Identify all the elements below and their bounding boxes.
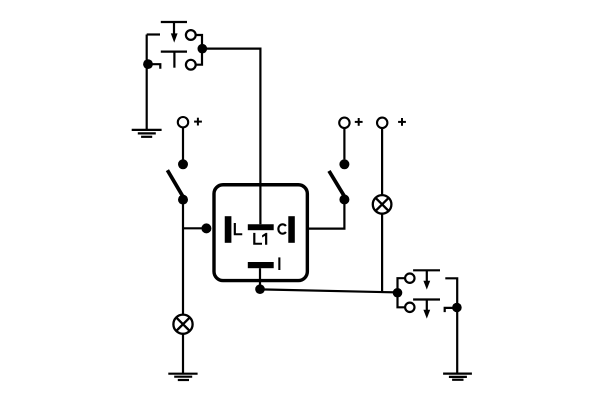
wire PB1 left terminal arm pole 1 (147, 33, 160, 35)
battery plus terminal middle (339, 118, 349, 128)
switch S1 (167, 159, 188, 204)
junction dot PB1 left (143, 59, 153, 69)
plus sign left (194, 118, 202, 126)
lamp E2 (373, 195, 392, 214)
PB2 right terminal hook pole 2 (445, 308, 457, 312)
wire terminal I to push-button PB2 (260, 289, 398, 292)
plus sign middle (355, 118, 363, 126)
junction dot under terminal I (255, 284, 265, 294)
terminal bar L (225, 216, 232, 243)
ground bottom-left (168, 374, 197, 380)
wire terminal C to switch S2 (307, 200, 344, 229)
lamp E1 (173, 315, 192, 334)
push-button PB2 terminal circle pole 2 (405, 303, 414, 312)
push-button PB1 terminal circle pole 2 (186, 60, 196, 70)
wire terminal I down (259, 268, 261, 289)
terminal bar C (288, 216, 295, 243)
push-button PB2 contact bar pole 2 (413, 298, 440, 300)
ground bottom-right (443, 374, 472, 380)
label L1 (253, 233, 267, 245)
label C (278, 224, 286, 233)
push-button PB1 contact bar pole 1 (161, 21, 187, 23)
junction dot PB2 input (393, 288, 403, 298)
push-button PB2 actuator arrow pole 1 (423, 270, 430, 289)
wire lamp E1 to ground (182, 334, 184, 374)
junction dot PB1 output (198, 44, 208, 54)
push-button PB2 terminal circle pole 1 (405, 274, 414, 283)
push-button PB1 actuator arrow pole 1 (171, 22, 178, 43)
push-button PB2 contact bar pole 1 (413, 269, 440, 271)
push-button PB1 actuator stem pole 2 (173, 52, 175, 68)
push-button PB1 contact bar pole 2 (161, 50, 187, 52)
PB1 left terminal hook pole 2 (148, 64, 160, 69)
label I (278, 257, 280, 270)
label L (234, 223, 243, 235)
wire branch to terminal L (183, 227, 206, 229)
battery plus terminal right (377, 118, 387, 128)
wire PB1 right bracket (196, 35, 202, 65)
push-button PB2 actuator arrow pole 2 (423, 300, 430, 319)
junction dot at terminal L (201, 223, 211, 233)
push-button PB1 terminal circle pole 1 (186, 30, 196, 40)
wire S1 down to lamp E1 (182, 200, 184, 315)
plus sign right (398, 118, 406, 126)
coil bar L1 (248, 224, 274, 230)
wire PB1 to flasher coil terminal (202, 49, 260, 225)
wire battery to switch S1 (182, 127, 184, 159)
wire PB2 right bracket (445, 278, 457, 307)
wire PB1 left side down to ground (146, 35, 148, 130)
terminal bar I (248, 262, 274, 268)
wire battery to lamp E2 (381, 128, 383, 195)
junction dot PB2 output (452, 303, 462, 313)
wire PB2 left bracket (398, 278, 405, 307)
wire lamp E2 down (381, 214, 383, 293)
switch S2 (329, 159, 349, 204)
flasher unit K1 enclosure (214, 185, 307, 281)
ground top-left (132, 130, 162, 137)
battery plus terminal left (178, 117, 188, 127)
wire battery to switch S2 (343, 128, 345, 159)
wire PB2 to ground (456, 308, 458, 374)
